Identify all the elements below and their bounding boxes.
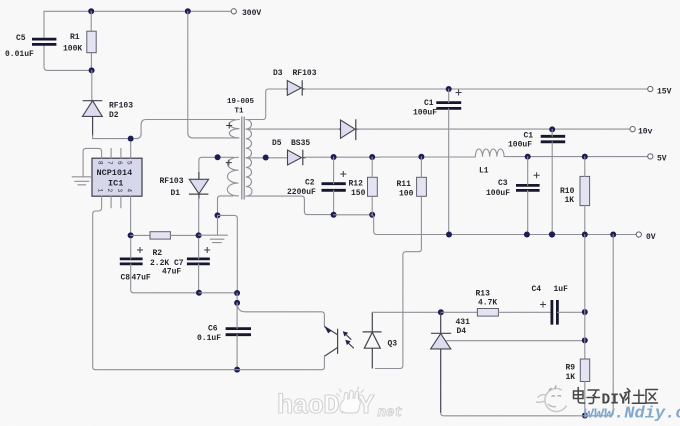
svg-text:www.Ndiy.cn: www.Ndiy.cn — [584, 405, 680, 424]
capacitor C1 (10v) — [541, 136, 566, 142]
svg-text:IC1: IC1 — [108, 179, 123, 189]
wire emitter to bottom rail — [234, 356, 324, 370]
wire aux bottom lead down — [218, 196, 234, 216]
junction C6 rail upper — [234, 290, 240, 296]
wire Q3 top to feedback node — [372, 311, 438, 313]
resistor R12 — [368, 177, 378, 196]
light arrow 2 — [348, 342, 354, 348]
svg-text:D2: D2 — [109, 111, 119, 120]
svg-text:6: 6 — [116, 161, 123, 165]
wire D1 cathode down to R2 node — [198, 198, 200, 232]
polarity + C7 — [204, 247, 210, 253]
diode D2 — [82, 101, 102, 136]
wire C6 leads — [236, 303, 238, 370]
wire pin 5 to clamp node — [130, 142, 132, 159]
wire 5V rail from L1 to terminal — [504, 156, 648, 158]
watermark text 电子DIY社区 (drawn strokes) — [574, 388, 658, 404]
capacitor C6 — [226, 329, 251, 335]
junction aux + — [215, 154, 221, 160]
svg-text:RF103: RF103 — [160, 177, 184, 186]
svg-text:3: 3 — [116, 189, 123, 193]
svg-text:100uF: 100uF — [486, 189, 510, 198]
svg-text:C3: C3 — [498, 179, 508, 188]
polarity + primary — [226, 123, 232, 129]
secondary winding (right) — [246, 120, 252, 197]
wire C5 left branch — [44, 11, 90, 70]
wire D2 anode to clamp junction — [93, 135, 128, 139]
wire secondary tap to 10v diode — [246, 128, 339, 130]
wire bottom-left rail to C6 node — [199, 292, 237, 294]
svg-text:150: 150 — [351, 189, 366, 198]
junction C6 top — [234, 300, 240, 306]
svg-text:7: 7 — [106, 161, 113, 165]
wire secondary top lead up to D3 — [246, 89, 286, 120]
junction R10 top — [582, 154, 588, 160]
node 0V terminal — [636, 232, 641, 237]
watermark haoDIY.net — [277, 387, 403, 422]
svg-text:L1: L1 — [479, 167, 489, 176]
junction 0V drop — [610, 232, 616, 238]
ground (aux winding) — [210, 215, 224, 242]
svg-text:1uF: 1uF — [554, 285, 569, 294]
junction C3 bottom — [524, 232, 530, 238]
capacitor C7 — [187, 259, 210, 264]
polarity + C4 — [540, 302, 546, 308]
junction R11 top — [418, 154, 424, 160]
junction C1b bottom — [549, 231, 555, 237]
wire pin 8 to ground — [83, 148, 102, 176]
wire 10v rail — [358, 128, 631, 130]
junction R2 / D1 / C7 — [196, 232, 202, 238]
wire pin 1 down left rail to bottom — [93, 196, 234, 370]
svg-text:D3: D3 — [273, 69, 283, 78]
svg-text:C2: C2 — [305, 179, 315, 188]
wire 15V rail — [305, 88, 648, 90]
node 300V terminal — [231, 9, 236, 14]
svg-text:RF103: RF103 — [293, 69, 317, 78]
junction R10 bottom — [582, 232, 588, 238]
svg-text:8: 8 — [97, 161, 104, 165]
svg-text:100K: 100K — [63, 45, 82, 54]
svg-text:net: net — [378, 405, 403, 421]
wire clamp junction to primary top (+) — [134, 120, 235, 139]
light arrow 1 — [345, 334, 351, 340]
wire D4 anode bottom run — [441, 413, 585, 416]
svg-text:C1: C1 — [524, 132, 534, 141]
wire D4 reference line — [447, 340, 585, 342]
svg-text:C8: C8 — [121, 274, 131, 283]
svg-text:0.1uF: 0.1uF — [197, 334, 221, 343]
svg-text:10v: 10v — [638, 128, 653, 137]
svg-text:NCP1014: NCP1014 — [97, 168, 133, 178]
svg-text:19-005: 19-005 — [227, 98, 255, 106]
pin 6 stub — [120, 148, 122, 158]
transformer core — [242, 117, 244, 200]
polarity + C1a — [456, 90, 462, 96]
wire C7 leads — [198, 238, 200, 292]
collector diagonal — [324, 327, 337, 335]
wire C2 bottom to R12 bottom — [334, 214, 369, 216]
wire pin 4 down to R2 node — [130, 196, 132, 232]
wire C2 leads — [333, 157, 335, 215]
junction R12 top — [369, 154, 375, 160]
junction clamp node — [128, 136, 134, 142]
wire D1 node to aux ground — [199, 234, 228, 236]
pin 7 stub — [110, 148, 112, 158]
wire junction to D2 cathode — [91, 70, 93, 100]
svg-text:300V: 300V — [242, 9, 261, 18]
svg-text:C6: C6 — [208, 325, 218, 334]
wire divider vertical upper (0V to C4 node) — [584, 235, 586, 313]
inductor L1 — [475, 149, 504, 157]
junction C2 top — [331, 154, 337, 160]
collector arrow — [324, 326, 331, 334]
polarity + C3 — [534, 172, 540, 178]
junction C2 bottom — [331, 212, 337, 218]
wire 5V rail from D5 to L1 — [305, 156, 476, 158]
wire 300V feed down to primary bottom — [188, 11, 222, 138]
svg-text:D4: D4 — [457, 327, 467, 336]
junction feedback node (R13/D4) — [438, 309, 444, 315]
junction D5 tap — [263, 155, 269, 161]
svg-text:R2: R2 — [153, 249, 163, 258]
svg-text:Y: Y — [358, 392, 375, 422]
wire R2 right to D1 node — [170, 234, 198, 236]
junction aux return — [215, 212, 221, 218]
capacitor C2 — [322, 184, 346, 191]
wire 300V top rail — [44, 10, 231, 12]
pin 2 stub — [110, 196, 112, 208]
svg-text:47uF: 47uF — [162, 268, 181, 277]
wire R10 leads — [584, 157, 586, 235]
svg-text:C4: C4 — [532, 285, 542, 294]
svg-text:R1: R1 — [70, 33, 80, 42]
wire R1 branch — [90, 11, 92, 70]
svg-text:R9: R9 — [566, 364, 576, 373]
wire R12 leads — [371, 157, 373, 215]
svg-text:4.7K: 4.7K — [478, 299, 497, 308]
wire R11 top lead — [420, 157, 422, 178]
junction R12 bottom — [369, 212, 375, 218]
resistor R9 — [580, 359, 589, 382]
svg-text:C1: C1 — [424, 99, 434, 108]
wire aux top lead to D1 drop — [199, 157, 234, 178]
svg-text:R13: R13 — [476, 290, 491, 299]
svg-text:C5: C5 — [16, 34, 26, 43]
polarity + aux — [226, 160, 232, 166]
junction D4 ref / R9 top — [582, 337, 588, 343]
wire C4 right to feedback divider — [557, 311, 584, 313]
wire C6 node jog to opto collector — [237, 303, 324, 327]
primary winding (left top) — [222, 120, 239, 138]
wire R13 left — [441, 311, 478, 313]
svg-text:R10: R10 — [560, 187, 575, 196]
junction C4 right — [582, 309, 588, 315]
resistor R1 — [87, 31, 96, 53]
svg-text:100uF: 100uF — [508, 141, 532, 150]
node 15V terminal — [648, 86, 653, 91]
capacitor C3 — [516, 185, 540, 190]
junction top rail / primary feed — [185, 8, 191, 14]
junction C1a top — [446, 86, 452, 92]
svg-text:Q3: Q3 — [388, 340, 398, 349]
diode D5 — [288, 150, 306, 166]
op-amp/controller IC1 NCP1014 — [92, 158, 142, 196]
transistor base bar — [337, 329, 339, 354]
wire C1a leads — [448, 89, 450, 235]
junction C1a bottom — [446, 232, 452, 238]
aux winding (left bottom) — [227, 157, 238, 196]
svg-text:1: 1 — [97, 189, 104, 193]
node 10v terminal — [630, 127, 635, 132]
junction C3 top — [525, 154, 531, 160]
svg-text:D5: D5 — [272, 139, 282, 148]
diode D3 — [286, 80, 305, 95]
node 5V terminal — [648, 154, 653, 159]
svg-text:15V: 15V — [657, 88, 672, 97]
wire C3 leads — [527, 157, 529, 235]
junction C7 bottom — [196, 290, 202, 296]
svg-text:BS35: BS35 — [291, 139, 310, 148]
junction R2 / pin4 / C8 — [128, 232, 134, 238]
junction R1/C5/D2 — [89, 67, 95, 73]
svg-text:431: 431 — [456, 318, 471, 327]
wire R12 node jog to 0V rail — [371, 215, 637, 235]
svg-text:47uF: 47uF — [132, 274, 151, 283]
polarity + C2 — [340, 171, 346, 177]
svg-text:2: 2 — [106, 189, 113, 193]
wire R9 top lead — [584, 312, 586, 359]
svg-text:R12: R12 — [349, 180, 364, 189]
svg-text:4: 4 — [126, 189, 133, 193]
capacitor C5 — [32, 39, 56, 44]
capacitor C1 (15V) — [436, 103, 461, 109]
wire bottom net up to 0V — [585, 235, 613, 416]
junction C6 bottom — [234, 367, 240, 373]
wire junction link — [236, 293, 238, 303]
resistor R13 — [477, 309, 498, 317]
svg-text:0.01uF: 0.01uF — [5, 50, 34, 59]
wire R11 bottom long loop to optocoupler LED — [375, 196, 421, 368]
diode Q3 (opto LED) — [363, 312, 382, 368]
svg-text:2200uF: 2200uF — [287, 188, 316, 197]
diode D4 (431 shunt) — [431, 312, 452, 413]
wire R2 left — [131, 234, 150, 236]
junction C1b top — [549, 126, 555, 132]
svg-text:100uF: 100uF — [413, 109, 437, 118]
diode D6 (10v rectifier, unlabeled) — [339, 119, 359, 140]
optocoupler phototransistor — [234, 326, 354, 370]
wire R9 bottom lead — [584, 382, 586, 416]
capacitor C4 — [552, 300, 558, 325]
svg-text:RF103: RF103 — [109, 102, 133, 111]
junction bottom net — [582, 413, 588, 419]
svg-text:D1: D1 — [171, 189, 181, 198]
capacitor C8 — [120, 259, 143, 264]
svg-text:1K: 1K — [565, 196, 575, 205]
resistor R10 — [580, 176, 590, 205]
svg-text:R11: R11 — [397, 180, 412, 189]
wire aux return to C6 rail — [218, 215, 238, 290]
polarity + C8 — [137, 247, 143, 253]
emitter diagonal — [324, 348, 337, 357]
wire secondary bottom return — [246, 196, 332, 215]
diode D1 — [189, 172, 209, 199]
ground (IC pin 8) — [72, 177, 91, 185]
wire C1b leads — [551, 129, 553, 234]
pin 3 stub — [120, 196, 122, 208]
watermark 电子DIY社区 logo — [536, 386, 567, 412]
svg-text:5V: 5V — [657, 155, 667, 164]
resistor R11 — [417, 177, 427, 196]
wire secondary tap to D5 — [246, 157, 287, 159]
wire C8 leads — [131, 238, 197, 292]
resistor R2 — [150, 232, 170, 239]
wire R13 right to C4 — [498, 311, 551, 313]
svg-text:haoD: haoD — [277, 392, 339, 422]
svg-text:100: 100 — [399, 190, 414, 199]
svg-text:0V: 0V — [646, 233, 656, 242]
junction top rail / R1 — [88, 8, 94, 14]
svg-text:T1: T1 — [235, 108, 245, 116]
svg-text:5: 5 — [126, 161, 133, 165]
svg-text:1K: 1K — [566, 373, 576, 382]
